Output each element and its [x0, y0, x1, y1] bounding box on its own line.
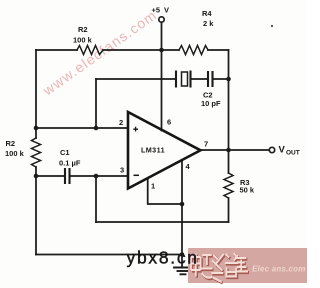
ground symbol	[174, 267, 191, 269]
minus sign input	[134, 174, 140, 176]
watermark red block bottom right	[188, 248, 307, 283]
wire ground vertical	[181, 204, 183, 267]
resistor R2 (left, 100 k)	[32, 138, 41, 167]
node C2/right rail junction	[226, 77, 231, 82]
wire top horizontal left segment	[36, 49, 77, 51]
crystal Y1	[176, 72, 191, 87]
wire left rail upper	[35, 50, 37, 138]
svg-text:7: 7	[204, 140, 208, 149]
node rail/pin2 junction	[34, 126, 39, 131]
svg-text:4: 4	[186, 162, 191, 171]
wire pin 2 input	[36, 127, 128, 129]
op-amp U1 LM311 triangle	[128, 112, 201, 189]
svg-text:R4: R4	[202, 9, 212, 18]
wire pin 4	[181, 160, 183, 204]
svg-text:+5: +5	[152, 6, 161, 15]
wire bottom horizontal	[36, 254, 182, 256]
svg-text:V: V	[279, 145, 286, 156]
resistor R2 (top, 100 k)	[77, 46, 103, 55]
node ground junction	[180, 252, 185, 257]
svg-text:OUT: OUT	[286, 150, 300, 157]
plus sign input	[133, 127, 138, 132]
svg-text:Elec ans.com: Elec ans.com	[252, 265, 306, 274]
wire right vertical rail	[228, 50, 230, 150]
svg-text:R2: R2	[78, 25, 88, 34]
wire C2 to right rail	[214, 78, 229, 80]
wire R3 top lead	[228, 150, 230, 173]
wire top horizontal right segment	[208, 49, 229, 51]
wire +5V rail down to pin 6	[161, 23, 163, 131]
wire R3 return vertical to pin3 node	[95, 176, 97, 222]
svg-text:LM311: LM311	[141, 146, 165, 155]
wire crystal branch horizontal	[96, 78, 175, 80]
svg-text:10 pF: 10 pF	[201, 99, 221, 108]
node output junction	[226, 148, 231, 153]
node crystal/pin2 junction	[94, 126, 99, 131]
svg-text:100 k: 100 k	[73, 36, 93, 45]
svg-text:3: 3	[120, 166, 124, 175]
wire crystal to C2	[192, 78, 207, 80]
resistor R4 (2 k)	[179, 46, 208, 55]
svg-text:V: V	[164, 6, 169, 15]
speck	[271, 25, 273, 27]
svg-text:0.1 µF: 0.1 µF	[59, 159, 81, 168]
svg-text:2: 2	[119, 118, 123, 127]
svg-text:2 k: 2 k	[203, 19, 214, 28]
terminal +5V	[159, 17, 164, 22]
wire R3 return horizontal	[96, 221, 229, 223]
faux hanzi strokes (light top layer)	[191, 253, 248, 282]
node R3-return/pin3 junction	[94, 174, 99, 179]
resistor R3 50 k	[224, 173, 233, 198]
wire pin 3 input left of C1	[36, 175, 64, 177]
svg-text:6: 6	[167, 118, 171, 127]
wire pin 3 input right of C1	[71, 175, 128, 177]
node pin1/pin4 junction	[180, 202, 185, 207]
wire output pin 7	[201, 149, 270, 151]
wire R3 bottom lead	[228, 198, 230, 222]
wire pin 1	[148, 179, 182, 205]
watermark www.elecfans.com diagonal	[39, 6, 160, 99]
watermark Elecfans.com script	[252, 265, 306, 274]
wire top horizontal middle segment	[103, 49, 179, 51]
svg-text:50 k: 50 k	[240, 186, 255, 195]
svg-text:R2: R2	[6, 139, 16, 148]
wire crystal branch vertical to pin2 node	[95, 79, 97, 128]
wire left rail lower	[35, 167, 37, 255]
svg-text:100 k: 100 k	[5, 149, 25, 158]
node rail/pin3 junction	[34, 174, 39, 179]
faux hanzi strokes (dark red under-layer)	[192, 254, 249, 283]
svg-text:ybx8.cn: ybx8.cn	[127, 248, 199, 268]
svg-text:1: 1	[151, 182, 155, 191]
capacitor C1 0.1 uF	[65, 169, 70, 183]
svg-text:C1: C1	[60, 148, 70, 157]
terminal VOUT	[269, 147, 274, 152]
node +5V/top wire junction	[159, 48, 164, 53]
capacitor C2 10 pF	[208, 72, 213, 86]
